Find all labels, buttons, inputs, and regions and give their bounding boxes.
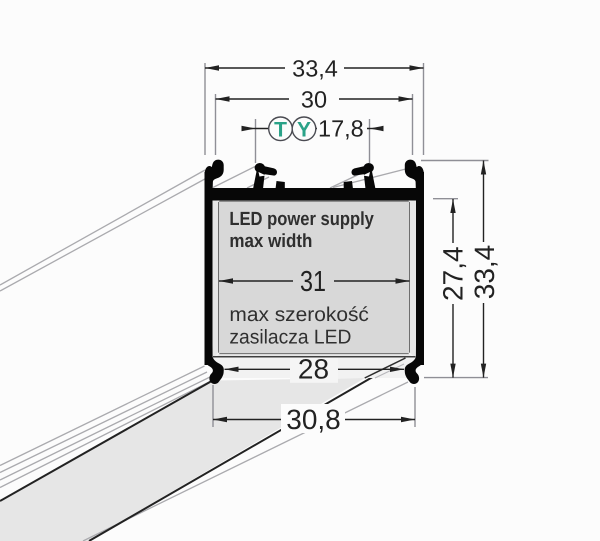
svg-text:33,4: 33,4 bbox=[292, 56, 338, 82]
svg-text:27,4: 27,4 bbox=[438, 246, 469, 301]
svg-text:T: T bbox=[274, 118, 287, 141]
svg-text:Y: Y bbox=[297, 118, 311, 141]
svg-text:30: 30 bbox=[301, 87, 327, 113]
svg-text:max width: max width bbox=[229, 231, 312, 252]
svg-text:33,4: 33,4 bbox=[469, 245, 500, 300]
svg-text:17,8: 17,8 bbox=[318, 116, 364, 142]
svg-text:max szerokość: max szerokość bbox=[229, 304, 369, 326]
svg-text:LED power supply: LED power supply bbox=[229, 209, 374, 230]
svg-text:30,8: 30,8 bbox=[286, 404, 341, 435]
svg-text:zasilacza LED: zasilacza LED bbox=[229, 327, 351, 349]
svg-text:31: 31 bbox=[300, 266, 326, 298]
svg-text:28: 28 bbox=[298, 353, 329, 384]
